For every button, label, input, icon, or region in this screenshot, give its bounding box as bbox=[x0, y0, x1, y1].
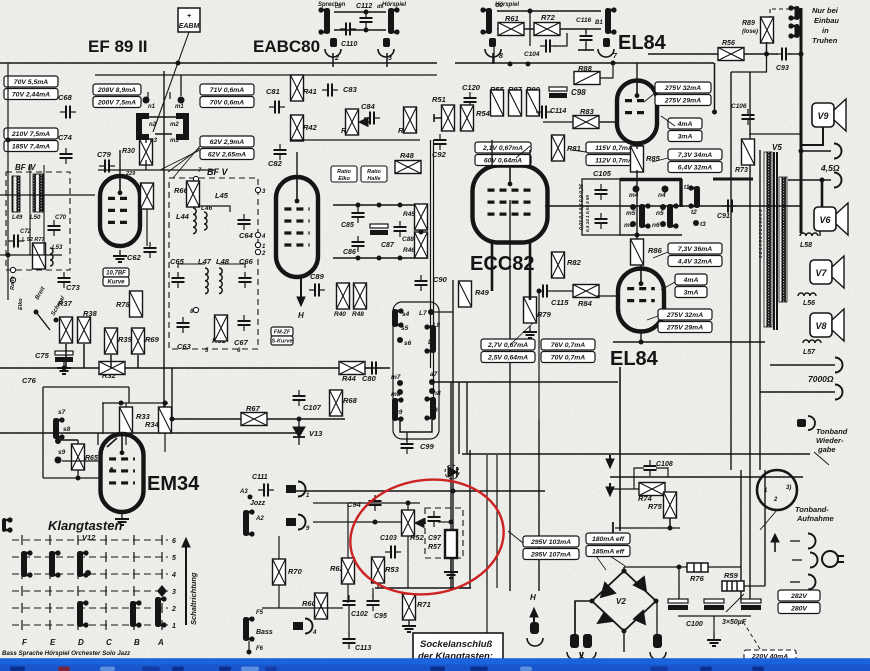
wire jack 4,5 a bbox=[801, 150, 831, 152]
svg-text:C112: C112 bbox=[356, 3, 372, 10]
capacitor C65 bbox=[172, 272, 185, 288]
wire riser x172 bbox=[171, 368, 173, 419]
capacitor C95 bbox=[367, 595, 380, 611]
svg-text:C100: C100 bbox=[686, 621, 703, 628]
svg-text:115V 0,7mA: 115V 0,7mA bbox=[595, 145, 633, 152]
ground below EF89 bbox=[113, 250, 127, 262]
svg-text:R52: R52 bbox=[410, 533, 425, 542]
klangtasten cross row5 bbox=[49, 552, 51, 562]
svg-text:Jozz: Jozz bbox=[250, 500, 266, 507]
junction cluster d bbox=[356, 256, 361, 261]
wire y503 seg bbox=[313, 502, 420, 504]
wire bracket bridge top bbox=[148, 116, 177, 118]
socket contact d2 bbox=[480, 7, 492, 34]
resistor R47 bbox=[404, 107, 417, 133]
junction cluster a bbox=[356, 203, 361, 208]
svg-text:C62: C62 bbox=[127, 253, 142, 262]
resistor R81 bbox=[552, 135, 565, 161]
antenna sym 2 bbox=[606, 483, 614, 496]
svg-text:C97: C97 bbox=[428, 535, 442, 542]
klangtasten row line 5 bbox=[12, 556, 168, 558]
wire C116 up bbox=[585, 29, 587, 33]
svg-text:n4: n4 bbox=[658, 192, 666, 199]
wire ECC82 top left bbox=[491, 140, 493, 166]
capacitor C68 bbox=[60, 106, 76, 119]
junction R89 line bbox=[764, 52, 769, 57]
coil L57 bbox=[803, 340, 821, 343]
capacitor C72 bbox=[8, 235, 24, 248]
wire R33 bottom bbox=[125, 433, 127, 445]
capacitor C73 bbox=[58, 272, 71, 288]
svg-text:Aufnahme: Aufnahme bbox=[796, 514, 834, 523]
coil L53 bbox=[50, 248, 53, 266]
transformer lead pin b bbox=[583, 634, 592, 648]
wire R89 to line bbox=[766, 42, 768, 54]
jack left 9 bbox=[298, 515, 306, 530]
voltage box 70V bbox=[4, 76, 58, 100]
pin 1 BFV bbox=[255, 242, 260, 247]
svg-text:Ratio: Ratio bbox=[367, 169, 381, 175]
svg-text:R69: R69 bbox=[145, 335, 160, 344]
wire C108 loop b bbox=[656, 468, 668, 477]
svg-text:R75: R75 bbox=[648, 502, 663, 511]
klangtasten cross row2 bbox=[21, 603, 23, 613]
wire mid vertical x164 bbox=[163, 71, 165, 433]
svg-text:4,4V 32mA: 4,4V 32mA bbox=[677, 259, 712, 266]
svg-text:C103: C103 bbox=[380, 535, 397, 542]
leader 180mA b bbox=[596, 556, 606, 570]
svg-text:L49: L49 bbox=[12, 215, 23, 221]
svg-text:n2: n2 bbox=[149, 122, 157, 128]
klangtasten row line 1 bbox=[12, 624, 168, 626]
wire top bus 2 bbox=[95, 74, 437, 76]
svg-text:V12: V12 bbox=[82, 533, 96, 542]
junction R67 left bbox=[170, 417, 175, 422]
svg-text:C83: C83 bbox=[343, 85, 358, 94]
wire C95 up bbox=[372, 588, 374, 597]
voltage box 7,3V b bbox=[668, 243, 722, 267]
klangtasten cross row5 bbox=[105, 552, 107, 562]
junction cluster b bbox=[377, 203, 382, 208]
svg-text:n3: n3 bbox=[150, 138, 158, 144]
svg-text:C102: C102 bbox=[351, 611, 368, 618]
transformer V5 secondary winding bbox=[779, 177, 787, 302]
jack left 1 bbox=[298, 482, 306, 497]
svg-text:C90: C90 bbox=[433, 275, 448, 284]
wire C97 lead bbox=[438, 521, 451, 523]
svg-text:C87: C87 bbox=[381, 242, 395, 249]
resistor R48h bbox=[395, 161, 421, 174]
label box Ratio Elko bbox=[331, 166, 357, 182]
wire m1 stub b bbox=[169, 92, 171, 99]
wire R52 bottom lead bbox=[407, 536, 409, 588]
filter block C105 bbox=[582, 179, 620, 235]
svg-text:C94: C94 bbox=[347, 500, 362, 509]
resistor R74 bbox=[639, 483, 665, 496]
V2 node bottom bbox=[622, 629, 627, 634]
junction R65 bottom bbox=[76, 476, 81, 481]
klangtasten row line 2 bbox=[12, 607, 168, 609]
klangtasten cross row6 bbox=[49, 535, 51, 545]
heater pin 2 bbox=[530, 622, 539, 634]
svg-text:4: 4 bbox=[171, 572, 176, 579]
svg-text:C88: C88 bbox=[402, 236, 414, 243]
svg-text:ECC82: ECC82 bbox=[470, 253, 534, 275]
svg-text:L 52 R77: L 52 R77 bbox=[22, 237, 45, 243]
wire corner x467 bbox=[466, 382, 468, 454]
svg-text:t1: t1 bbox=[684, 185, 690, 191]
wire V2 left lead bbox=[575, 601, 592, 636]
wire R76 line bbox=[624, 566, 687, 568]
svg-text:0,5 14 1 0,03 5 50: 0,5 14 1 0,03 5 50 bbox=[585, 195, 590, 232]
capacitor C99 bbox=[401, 438, 414, 454]
connector F5 bbox=[243, 616, 255, 641]
svg-text:3mA: 3mA bbox=[684, 290, 699, 297]
junction bus y403 b bbox=[163, 401, 168, 406]
contact t3 dot bbox=[693, 220, 699, 226]
svg-text:R78: R78 bbox=[116, 300, 131, 309]
wire sockel x487 bbox=[486, 455, 488, 633]
wire C65 loop top bbox=[178, 264, 205, 268]
ground below C75 bbox=[57, 362, 71, 374]
wire socket bottom wire bbox=[334, 29, 386, 31]
wire socket2 top wire bbox=[497, 10, 601, 12]
dashed wire R89 down bbox=[769, 9, 771, 17]
chassis R75 bbox=[612, 522, 614, 534]
transformer V5 core bbox=[774, 152, 777, 330]
resistor R82 bbox=[552, 252, 565, 278]
klangtasten key E bbox=[49, 550, 61, 577]
wire s9 to EM34 bbox=[62, 460, 99, 462]
stage box BF V bbox=[169, 178, 258, 349]
svg-text:2: 2 bbox=[261, 251, 266, 257]
speaker V9 bbox=[812, 99, 846, 131]
jack ps a bbox=[808, 534, 816, 549]
wire R39 down bbox=[110, 355, 112, 368]
capacitor C103 bbox=[385, 546, 401, 559]
wire cluster bus top bbox=[333, 204, 428, 206]
switch lever bbox=[36, 312, 50, 330]
resistor R51 bbox=[442, 105, 455, 131]
potentiometer R52 bbox=[402, 510, 415, 536]
junction y491 x453 bbox=[451, 489, 456, 494]
capacitor C116 bbox=[580, 30, 593, 46]
wire EL84b left lead bbox=[597, 295, 619, 297]
capacitor C102 bbox=[343, 595, 356, 611]
svg-text:R72: R72 bbox=[541, 13, 556, 22]
svg-text:C86: C86 bbox=[343, 249, 356, 256]
capacitor C81 bbox=[269, 101, 285, 114]
wire C104 loop a bbox=[529, 11, 531, 46]
svg-text:8: 8 bbox=[499, 53, 503, 60]
klangtasten cross row1 bbox=[161, 620, 163, 630]
svg-text:S-Kurve: S-Kurve bbox=[271, 338, 292, 344]
svg-text:229: 229 bbox=[125, 171, 136, 177]
resistor R68 bbox=[330, 390, 343, 416]
svg-text:L53: L53 bbox=[52, 245, 63, 251]
wire ECC82 top right bbox=[529, 150, 531, 166]
wire ECC82 left pin down bbox=[491, 243, 494, 291]
wire bus y433 bbox=[0, 432, 302, 434]
svg-text:B1: B1 bbox=[595, 20, 603, 26]
svg-text:70V 5,5mA: 70V 5,5mA bbox=[14, 79, 48, 86]
svg-text:C84: C84 bbox=[361, 102, 376, 111]
jack 7000 b bbox=[835, 385, 843, 400]
svg-text:m1: m1 bbox=[175, 104, 184, 110]
resistor R77 bbox=[33, 243, 46, 269]
svg-text:n1: n1 bbox=[148, 104, 156, 110]
pin 7 arc bbox=[598, 49, 614, 57]
leader 275V box b bbox=[647, 316, 658, 320]
wire C99 lead bbox=[406, 432, 408, 441]
wire bus y206 right bbox=[545, 205, 800, 207]
wire bus y477 right bbox=[610, 476, 803, 478]
coil L56 bbox=[798, 293, 816, 296]
capacitor C75 bbox=[55, 351, 73, 362]
leader 4mA box a bbox=[661, 116, 675, 126]
resistor R49 bbox=[459, 281, 472, 307]
svg-text:EL84: EL84 bbox=[610, 348, 659, 370]
svg-text:s6: s6 bbox=[404, 340, 412, 347]
svg-text:(lose): (lose) bbox=[742, 29, 758, 35]
wire R75 gnd line bbox=[615, 527, 680, 529]
wire vertical x470 bbox=[469, 450, 471, 588]
leader 295V box bbox=[508, 531, 523, 543]
svg-text:L9: L9 bbox=[428, 339, 436, 346]
label box Ratio Halle bbox=[361, 166, 387, 182]
svg-text:m7: m7 bbox=[391, 374, 401, 381]
svg-text:C82: C82 bbox=[268, 159, 283, 168]
capacitor C64 bbox=[238, 214, 251, 230]
svg-text:R89: R89 bbox=[742, 20, 755, 27]
svg-text:Bass Sprache Hörspiel Orcheste: Bass Sprache Hörspiel Orchester Solo Jaz… bbox=[2, 650, 131, 657]
svg-text:2,7V 0,67mA: 2,7V 0,67mA bbox=[487, 342, 528, 349]
wire R52 top lead bbox=[407, 503, 409, 510]
klangtasten row line 3 bbox=[12, 590, 168, 592]
svg-text:E: E bbox=[50, 638, 56, 647]
capacitor C114 bbox=[536, 106, 552, 119]
klangtasten cross row5 bbox=[133, 552, 135, 562]
svg-text:C75: C75 bbox=[35, 351, 50, 360]
capacitor C110 bbox=[340, 23, 356, 36]
svg-text:R70: R70 bbox=[288, 567, 303, 576]
resistor R76 boxes bbox=[687, 563, 708, 572]
svg-text:m3: m3 bbox=[170, 138, 179, 144]
svg-text:180mA eff: 180mA eff bbox=[592, 536, 625, 543]
pin 8 BFV bbox=[193, 307, 198, 312]
wire R53 down bbox=[377, 583, 379, 588]
svg-text:H: H bbox=[530, 593, 536, 602]
svg-text:2: 2 bbox=[334, 55, 339, 62]
capacitor C85 bbox=[352, 207, 365, 223]
coil L44 bbox=[193, 208, 196, 234]
wire R83 to tube bbox=[599, 121, 618, 123]
trim arrow R51 bbox=[434, 114, 442, 122]
resistor R79 bbox=[524, 297, 537, 323]
wire vertical x620 bbox=[619, 367, 621, 531]
wire x430 down bbox=[430, 140, 432, 368]
contact s9 dot bbox=[55, 457, 62, 464]
filter box 10,7BF bbox=[103, 268, 129, 277]
junction C112 bottom bbox=[364, 28, 369, 33]
capacitor C111 bbox=[258, 484, 274, 497]
svg-text:R48: R48 bbox=[400, 151, 415, 160]
wire pin3 down bbox=[386, 53, 388, 67]
svg-text:112V 0,7mA: 112V 0,7mA bbox=[595, 158, 633, 165]
svg-text:R41: R41 bbox=[303, 87, 317, 96]
svg-text:2: 2 bbox=[171, 606, 176, 613]
diode V13 bbox=[293, 419, 305, 445]
wire s8 to R65 bbox=[60, 439, 78, 441]
wire R56 to C93 bbox=[744, 53, 778, 55]
wire vertical x750 bbox=[749, 72, 751, 601]
svg-text:275V 32mA: 275V 32mA bbox=[664, 85, 701, 92]
capacitor C88 bbox=[394, 221, 407, 237]
svg-text:4,5Ω: 4,5Ω bbox=[820, 163, 840, 173]
voltage box 2,7V bbox=[481, 339, 535, 363]
wire top bus bbox=[0, 62, 437, 64]
wire m-cluster right bold bbox=[679, 179, 682, 207]
wire C93 to bus bbox=[788, 53, 801, 55]
voltage box 220V 40mA bbox=[744, 650, 796, 661]
wire corner x459 bbox=[458, 382, 460, 454]
klangtasten cross row5 bbox=[161, 552, 163, 562]
contact n6 dot bbox=[660, 221, 666, 227]
contact m7 bbox=[397, 380, 403, 386]
svg-text:L48: L48 bbox=[216, 257, 230, 266]
wire EABC80 anode bbox=[296, 152, 298, 177]
resistor R87 bbox=[509, 90, 522, 116]
contact m8 bbox=[397, 389, 403, 395]
resistor R90 bbox=[527, 90, 540, 116]
wire x433 down bbox=[433, 140, 435, 420]
resistor R69 bbox=[132, 328, 145, 354]
ground C100 bbox=[707, 634, 721, 646]
potentiometer R52 bbox=[415, 519, 426, 528]
junction speaker bus bbox=[820, 178, 825, 183]
dashed wire to R89 bbox=[770, 8, 790, 10]
svg-text:Klangtasten: Klangtasten bbox=[48, 518, 122, 533]
coil L58 bbox=[800, 233, 818, 236]
svg-text:m9: m9 bbox=[393, 409, 403, 416]
battery plus box EABM bbox=[178, 8, 200, 32]
wire enclosure top bbox=[43, 386, 129, 388]
svg-text:2,5V 0,64mA: 2,5V 0,64mA bbox=[487, 355, 528, 362]
resistor R73 bbox=[742, 139, 755, 165]
klangtasten cross row6 bbox=[21, 535, 23, 545]
switch contact m5 m6 bbox=[639, 203, 651, 228]
svg-text:R57: R57 bbox=[428, 544, 442, 551]
svg-text:C104: C104 bbox=[524, 51, 540, 58]
speaker V6 bbox=[814, 203, 848, 235]
ground R71 bbox=[402, 620, 416, 632]
contact m5 dot bbox=[630, 204, 636, 210]
resistor R57 bold bbox=[445, 530, 457, 558]
svg-text:4mA: 4mA bbox=[677, 121, 693, 128]
svg-text:R34: R34 bbox=[145, 420, 160, 429]
voltage box 275V a bbox=[655, 82, 711, 106]
wire V2 bottom lead bbox=[623, 631, 625, 652]
svg-text:R45: R45 bbox=[403, 211, 415, 218]
klangtasten cross row6 bbox=[77, 535, 79, 545]
jack 4,5 ohm b bbox=[834, 173, 842, 188]
capacitor C89 bbox=[309, 284, 325, 297]
capacitor C115 bbox=[537, 285, 553, 298]
resistor R54 bbox=[461, 105, 474, 131]
switch contact s4-s5 bbox=[392, 308, 404, 327]
klangtasten cross row4 bbox=[161, 569, 163, 579]
svg-text:H: H bbox=[298, 311, 304, 320]
resistor R86 bbox=[631, 239, 644, 265]
svg-text:V13: V13 bbox=[309, 429, 323, 438]
resistor R39 bbox=[105, 328, 118, 354]
svg-text:R49: R49 bbox=[475, 288, 490, 297]
potentiometer R50 bbox=[346, 109, 359, 135]
jack ps c bbox=[808, 575, 816, 590]
wire left edge bus bbox=[7, 63, 9, 300]
wire speaker bus bold bbox=[821, 180, 824, 208]
wire R75 down bbox=[669, 518, 671, 528]
wire R37 down bbox=[65, 344, 67, 368]
svg-text:V5: V5 bbox=[772, 143, 782, 152]
wire EL84 top lead bbox=[636, 63, 638, 80]
klangtasten cross row4 bbox=[133, 569, 135, 579]
svg-text:C80: C80 bbox=[362, 374, 377, 383]
wire V2 top lead bbox=[623, 567, 625, 571]
resistor R59 boxes bbox=[722, 581, 744, 591]
contact m6 dot bbox=[630, 221, 636, 227]
leader tonband wg bbox=[814, 452, 829, 465]
wire m-cluster top bold bbox=[620, 178, 682, 181]
wire EF89 anode up bbox=[119, 150, 121, 176]
heater jack 2 bbox=[527, 638, 543, 646]
klangtasten cross row5 bbox=[21, 552, 23, 562]
resistor R85 bbox=[631, 146, 644, 172]
svg-text:R82: R82 bbox=[567, 258, 582, 267]
svg-text:n5: n5 bbox=[656, 210, 664, 217]
wire pin c up bbox=[656, 601, 658, 634]
socket contact c5 bbox=[318, 7, 330, 34]
junction left c bbox=[6, 138, 11, 143]
wire C116 tbar stem bbox=[585, 43, 587, 50]
capacitor C120 bbox=[464, 92, 477, 108]
capacitor C106 bbox=[742, 109, 755, 125]
svg-text:m2: m2 bbox=[170, 122, 179, 128]
voltage box 208V bbox=[93, 84, 141, 108]
socket pin 8 bbox=[489, 38, 496, 47]
svg-text:R76: R76 bbox=[690, 574, 705, 583]
resistor R78 bbox=[130, 291, 143, 317]
resistor R48v bbox=[354, 283, 367, 309]
leader 2,1V box bbox=[516, 146, 530, 158]
svg-text:275V 29mA: 275V 29mA bbox=[666, 325, 703, 332]
tube EM34 bbox=[101, 434, 144, 512]
klangtasten cross row3 bbox=[21, 586, 23, 596]
svg-text:C110: C110 bbox=[341, 41, 357, 48]
speaker V8 bbox=[810, 309, 844, 341]
annotation red ellipse bbox=[343, 470, 511, 604]
svg-text:295V 107mA: 295V 107mA bbox=[530, 552, 571, 559]
wire C66 loop top bbox=[219, 264, 245, 268]
svg-text:R44: R44 bbox=[342, 374, 357, 383]
svg-text:275V 32mA: 275V 32mA bbox=[666, 312, 703, 319]
svg-text:s5: s5 bbox=[401, 325, 409, 332]
resistor R65 bbox=[72, 444, 85, 470]
jack 7000 a bbox=[835, 358, 843, 373]
svg-text:295V 103mA: 295V 103mA bbox=[530, 539, 571, 546]
svg-text:7,3V 34mA: 7,3V 34mA bbox=[678, 152, 712, 159]
svg-text:70V 0,6mA: 70V 0,6mA bbox=[210, 100, 244, 107]
